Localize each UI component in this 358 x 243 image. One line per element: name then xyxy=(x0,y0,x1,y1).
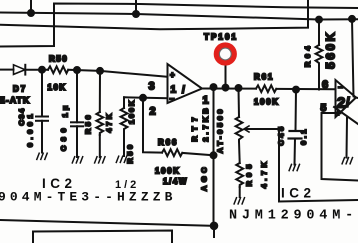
bottom component box xyxy=(33,231,172,243)
node wiper arrowhead xyxy=(244,126,249,132)
svg-text:/: / xyxy=(182,85,185,96)
capacitor C34 xyxy=(36,70,48,153)
resistor R64 vertical xyxy=(316,20,323,90)
wire output stub xyxy=(356,97,358,100)
wire bus line 3 xyxy=(0,0,308,29)
wire stub below junction xyxy=(213,226,215,237)
wire main input line left xyxy=(0,69,14,71)
svg-text:3: 3 xyxy=(149,81,155,93)
wire bus line 1 top xyxy=(0,4,358,47)
capacitor C45 xyxy=(289,90,303,165)
node junction (352,18.5) xyxy=(349,16,355,22)
ground under R59 xyxy=(116,156,126,162)
resistor R61 horizontal 100K xyxy=(256,85,276,92)
ground under R56 xyxy=(95,157,105,163)
svg-text:100K: 100K xyxy=(127,99,136,124)
svg-text:2.7KB: 2.7KB xyxy=(201,105,210,141)
svg-text:R95: R95 xyxy=(245,161,254,187)
svg-text:AT-9569: AT-9569 xyxy=(216,107,225,153)
svg-text:IC2: IC2 xyxy=(281,186,316,201)
node junction (238,88) xyxy=(236,85,242,91)
node junction (136,14) xyxy=(133,11,139,17)
svg-text:+: + xyxy=(170,71,175,80)
svg-text:560K: 560K xyxy=(324,30,338,69)
svg-text:D7: D7 xyxy=(13,85,27,94)
wire stub x136 xyxy=(135,0,137,14)
svg-text:R61: R61 xyxy=(254,73,274,82)
wire bus line 2 xyxy=(0,13,358,20)
svg-text:1μ: 1μ xyxy=(61,103,70,118)
node junction (100,70.9) xyxy=(97,68,103,74)
svg-text:47K: 47K xyxy=(105,111,114,132)
wire opamp1 output line xyxy=(202,88,256,90)
node junction (77,70) xyxy=(74,67,80,73)
svg-text:R66: R66 xyxy=(158,138,178,147)
ground under C34 xyxy=(37,153,47,159)
resistor R59 vertical 100K xyxy=(121,97,128,156)
svg-text:1/4W: 1/4W xyxy=(163,177,188,186)
wire vertical net A from output xyxy=(213,87,215,226)
svg-text:AGC: AGC xyxy=(200,164,209,191)
wire pin2 net xyxy=(124,96,168,99)
svg-text:100K: 100K xyxy=(254,98,280,107)
wire R66 to node xyxy=(182,153,213,155)
svg-text:NJM12904M-: NJM12904M- xyxy=(229,209,358,224)
svg-text:R50: R50 xyxy=(49,55,68,64)
capacitor C30 xyxy=(71,70,83,157)
svg-text:C45: C45 xyxy=(277,124,286,145)
node junction (143,96) xyxy=(140,95,146,101)
ground under op-amp U2 xyxy=(342,158,352,164)
resistor R50 horizontal 10K xyxy=(48,66,68,73)
svg-text:2: 2 xyxy=(150,106,156,118)
svg-text:1: 1 xyxy=(171,85,177,96)
svg-text:904M-TE3--HZZZB: 904M-TE3--HZZZB xyxy=(0,190,177,205)
wire stub x31 xyxy=(30,0,32,13)
diode D7 xyxy=(14,65,49,75)
ground under C30 xyxy=(72,157,82,163)
svg-text:/: / xyxy=(346,95,350,110)
svg-text:R56: R56 xyxy=(84,113,93,134)
node junction (225,87.5) xyxy=(223,85,229,91)
wire long bottom horizontal xyxy=(0,220,214,226)
node junction (42,69.7) xyxy=(39,67,45,73)
wire R66 feedback net xyxy=(143,98,162,153)
svg-text:0.1: 0.1 xyxy=(299,127,308,145)
svg-text:100K: 100K xyxy=(155,167,181,176)
node junction (31,13) xyxy=(28,10,34,16)
node junction (213,87) xyxy=(211,84,217,90)
resistor R95 vertical 4.7K xyxy=(236,163,243,197)
ground under C45 xyxy=(289,164,299,170)
resistor R66 horizontal xyxy=(162,149,182,156)
svg-text:4.7K: 4.7K xyxy=(260,159,269,189)
svg-text:−: − xyxy=(338,83,343,92)
node junction (213.5,155.3) xyxy=(211,152,217,158)
resistor RT7 vertical 2.7K xyxy=(236,88,243,163)
svg-text:E-ATK: E-ATK xyxy=(0,95,30,105)
svg-text:C30: C30 xyxy=(59,124,68,151)
wire opamp2 ground pin xyxy=(346,118,349,158)
op-amp U2 second half IC2 xyxy=(336,80,357,117)
svg-text:10K: 10K xyxy=(48,83,67,92)
wire RT7 wiper arm to bottom right xyxy=(246,129,358,202)
node junction (296,89.6) xyxy=(293,87,299,93)
svg-text:−: − xyxy=(170,95,175,104)
svg-text:R59: R59 xyxy=(126,142,135,163)
svg-text:0.001: 0.001 xyxy=(26,111,35,147)
wire diagonal below opamp2 xyxy=(334,107,358,124)
svg-text:6: 6 xyxy=(322,79,328,91)
wire pin5 box xyxy=(322,113,358,181)
wire R61 to pin6 xyxy=(276,88,335,90)
node junction (319,19) xyxy=(316,17,322,23)
wire feedback right vertical xyxy=(352,19,356,98)
resistor R56 vertical 47K xyxy=(96,71,103,157)
op-amp U1 first half IC2 xyxy=(168,64,203,103)
ground under R95 xyxy=(234,198,244,204)
test point TP101 xyxy=(217,45,234,87)
svg-text:R64: R64 xyxy=(303,43,312,67)
node junction (214,225.8) xyxy=(211,223,218,230)
svg-text:RT7: RT7 xyxy=(190,112,199,141)
svg-text:1: 1 xyxy=(203,95,209,107)
wire main line to opamp xyxy=(68,70,167,77)
svg-text:TP101: TP101 xyxy=(204,33,238,42)
